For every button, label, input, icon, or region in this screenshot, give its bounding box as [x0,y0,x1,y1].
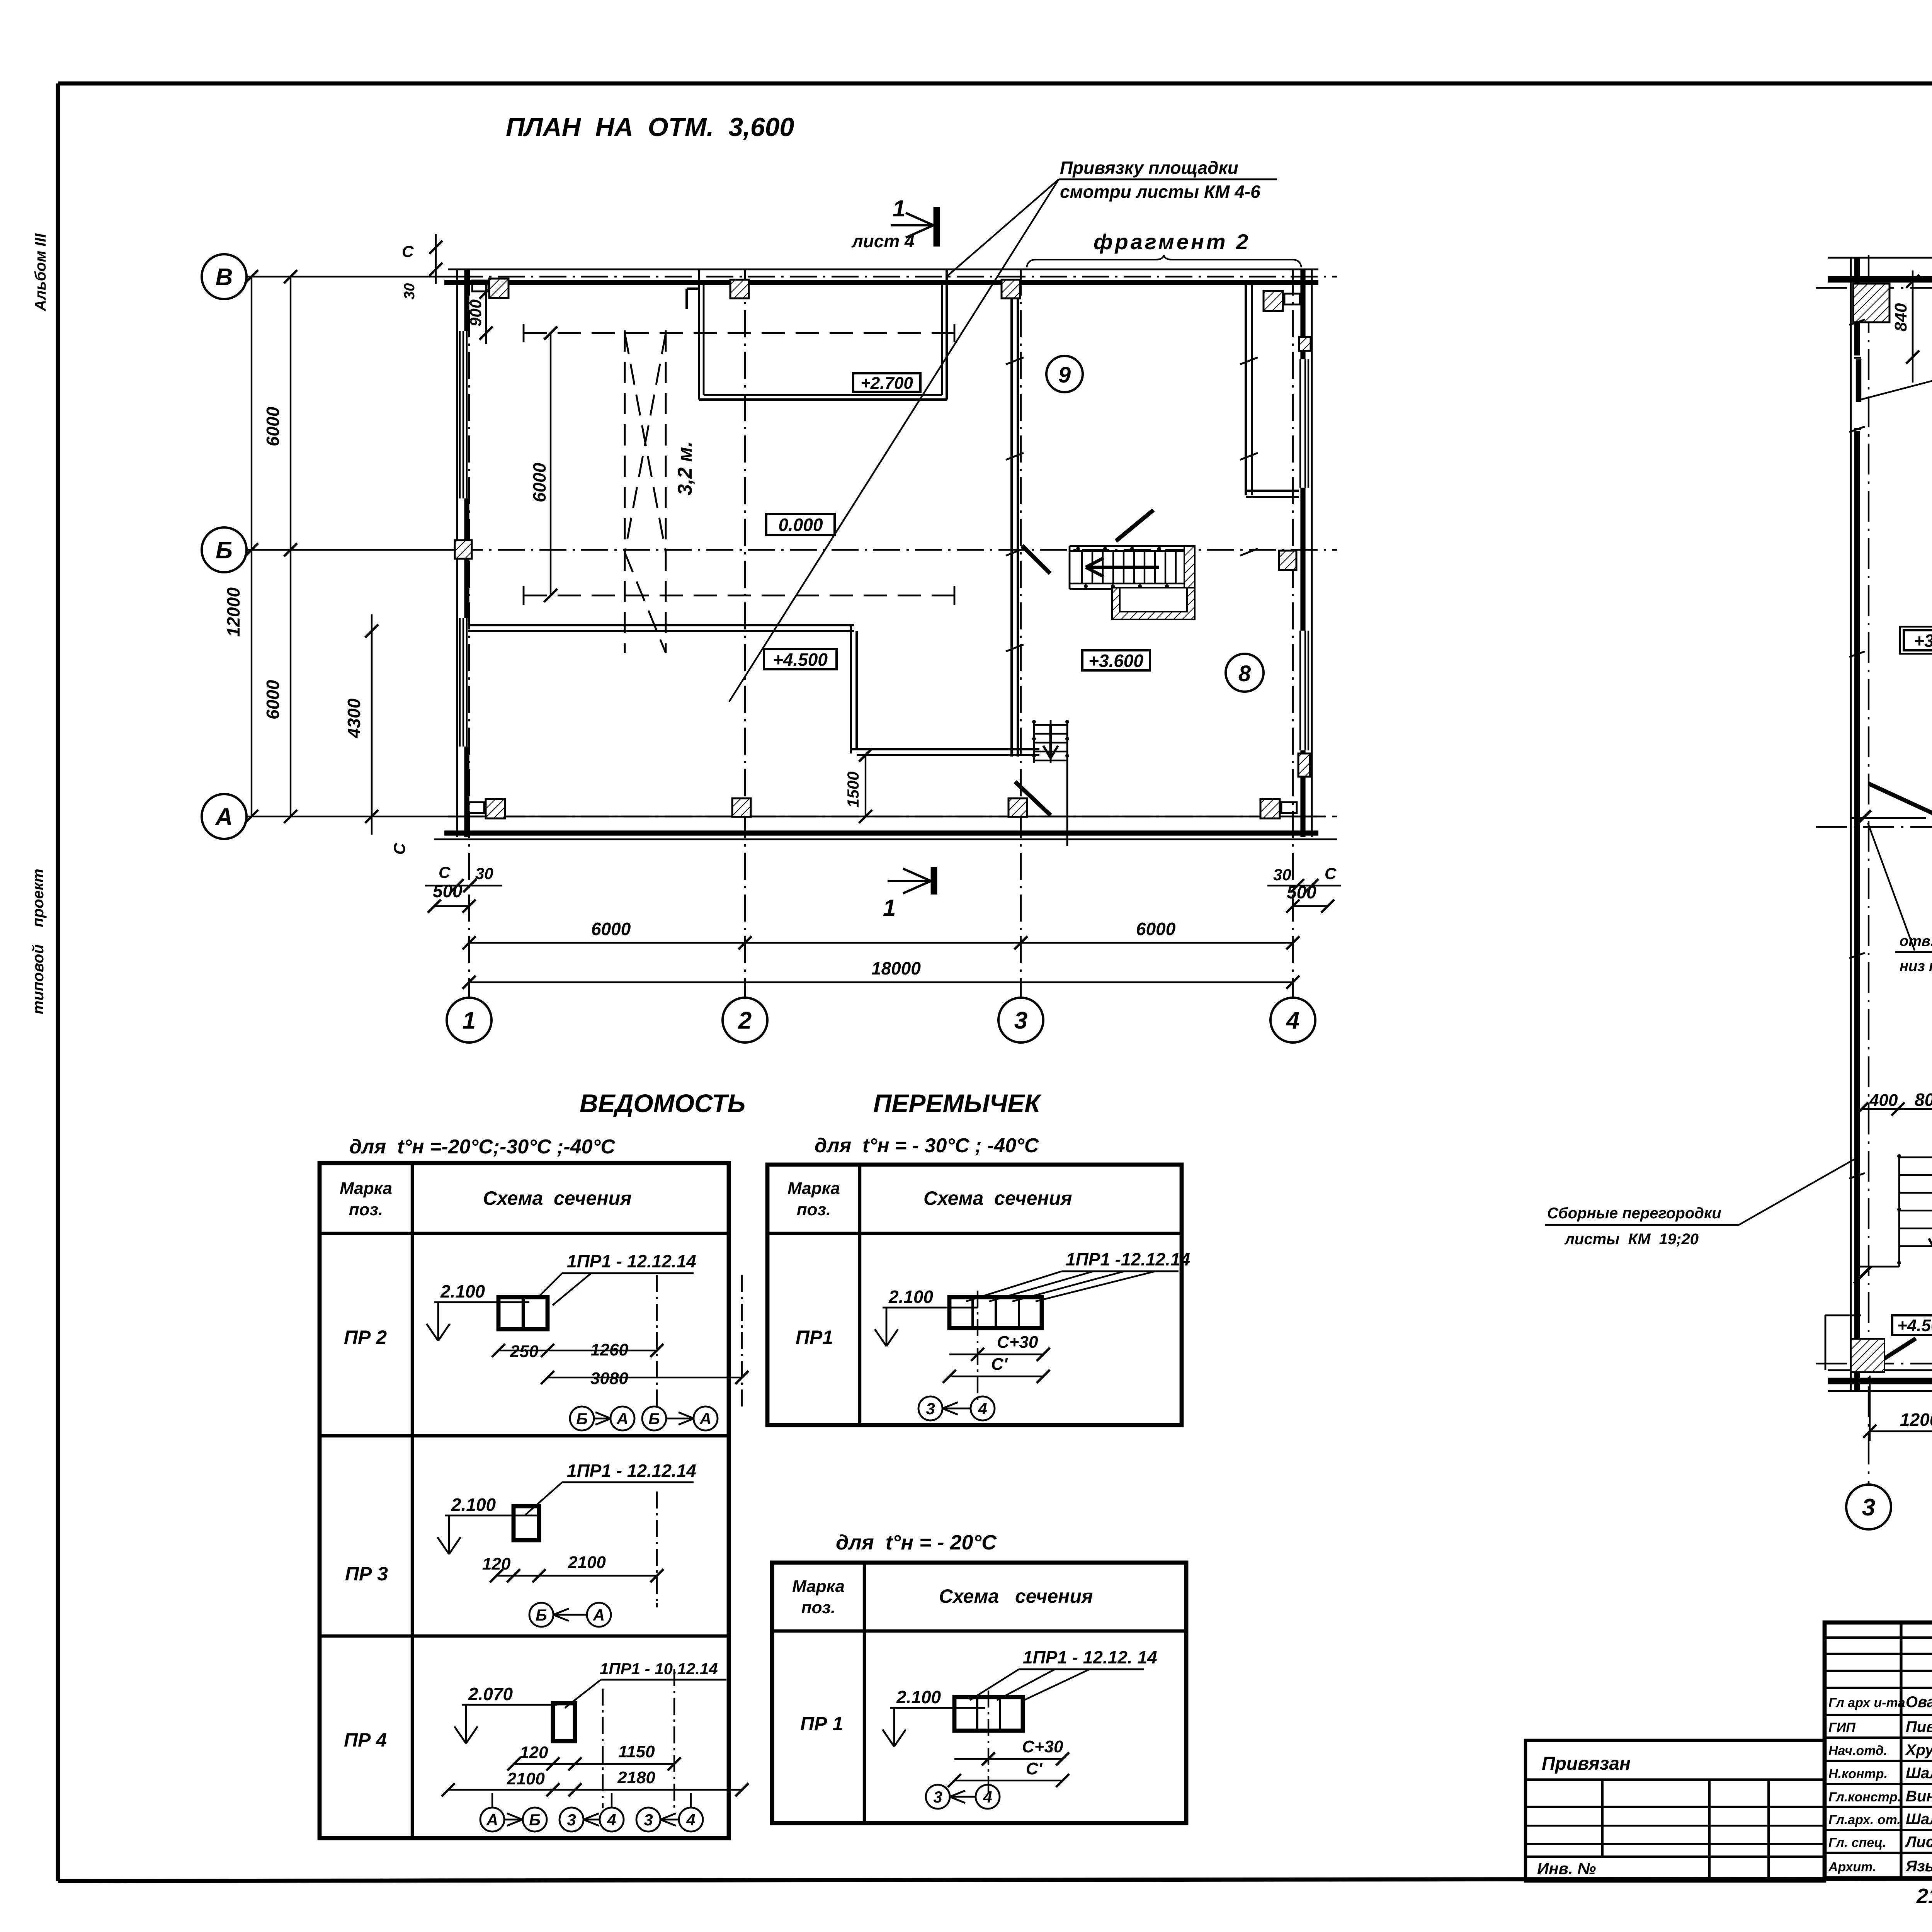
svg-text:6000: 6000 [1136,919,1176,939]
svg-text:250: 250 [510,1342,539,1361]
PR3 section sketch [514,1506,539,1540]
svg-text:смотри листы КМ 4-6: смотри листы КМ 4-6 [1060,182,1260,202]
svg-text:поз.: поз. [801,1598,835,1617]
svg-text:2.100: 2.100 [440,1281,485,1301]
svg-text:Архит.: Архит. [1828,1860,1876,1874]
svg-text:840: 840 [1891,303,1910,332]
plan column axis 2 [744,269,746,998]
svg-text:типовой проект: типовой проект [30,869,47,1014]
svg-text:С': С' [1026,1759,1043,1778]
svg-text:отв. 300×300 ОВ: отв. 300×300 ОВ [1900,933,1932,949]
svg-text:21177-03: 21177-03 [1916,1884,1932,1908]
svg-text:Гл арх и-та: Гл арх и-та [1828,1696,1905,1710]
interior room wall top (+4.500 room) [468,624,854,626]
svg-text:А: А [593,1606,605,1624]
section flag 1 bottom [931,867,937,895]
svg-text:1ПР1 - 10.12.14: 1ПР1 - 10.12.14 [600,1660,718,1678]
svg-text:ПР 4: ПР 4 [344,1729,387,1751]
svg-text:Привязан: Привязан [1542,1753,1631,1774]
svg-text:120: 120 [482,1554,511,1573]
svg-text:900: 900 [466,299,485,327]
svg-text:2100: 2100 [507,1769,545,1788]
svg-text:ПЛАН НА ОТМ. 3,600: ПЛАН НА ОТМ. 3,600 [506,112,794,142]
svg-text:А: А [486,1811,498,1829]
svg-text:+3.600: +3.600 [1088,651,1143,671]
svg-text:800: 800 [1915,1090,1932,1110]
fragment left wall door opening [1856,359,1861,402]
svg-text:2.100: 2.100 [888,1287,934,1307]
crane runway beam (dashed) lower [524,595,954,597]
pilaster attach bottom axis1 [469,802,484,813]
svg-text:2.070: 2.070 [468,1684,513,1704]
ladder LG-2 [1898,1155,1900,1267]
svg-text:1ПР1 - 12.12.14: 1ПР1 - 12.12.14 [567,1461,696,1481]
level box +3.600 [1082,650,1150,670]
svg-text:3: 3 [644,1811,653,1829]
svg-text:6000: 6000 [529,463,549,502]
pilaster top axis2 [730,280,749,298]
svg-text:6000: 6000 [591,919,631,939]
PR3 axis refs [529,1603,553,1627]
svg-text:4: 4 [978,1400,987,1418]
svg-text:Б: Б [536,1606,547,1624]
plan column axis 3 [1020,269,1022,998]
svg-text:С+30: С+30 [1022,1737,1063,1756]
left dim chain 12000 [251,277,252,816]
lintel table 1 box [320,1163,729,1838]
mezzanine +2.700 outline [698,269,700,400]
svg-text:30: 30 [475,864,493,883]
plan main stair near axis B [1070,545,1195,547]
svg-text:4: 4 [983,1788,992,1806]
svg-text:Пивторак: Пивторак [1906,1718,1932,1735]
plan door swing near stair top [1116,510,1153,541]
left dim chain 6000/6000 [290,277,291,816]
fragment axis 3 vertical [1868,255,1869,1486]
svg-text:Схема сечения: Схема сечения [939,1585,1093,1607]
bottom left dim 500 [434,905,469,907]
svg-text:А: А [616,1410,628,1428]
plan top wall [448,269,1318,270]
svg-text:поз.: поз. [797,1200,831,1219]
svg-text:Ованесян: Ованесян [1906,1694,1932,1711]
pilaster right wall upper [1299,337,1311,351]
svg-text:1260: 1260 [590,1340,628,1359]
crane runway beam (dashed) upper [524,332,954,334]
plan axis circle A [202,794,247,839]
svg-text:3,2 м.: 3,2 м. [674,441,696,495]
svg-text:6000: 6000 [263,680,283,719]
svg-text:18000: 18000 [871,958,921,978]
svg-text:ВЕДОМОСТЬ: ВЕДОМОСТЬ [580,1089,745,1117]
svg-text:30: 30 [1273,866,1291,884]
door swing at axis B left wall [1869,784,1932,818]
svg-text:30: 30 [401,283,418,299]
interior room wall bottom [851,748,1039,750]
svg-text:листы КМ 19;20: листы КМ 19;20 [1564,1231,1699,1248]
plan left wall [456,269,458,837]
svg-text:фрагмент 2: фрагмент 2 [1094,230,1250,254]
dim 4300 [371,631,372,816]
section flag 1 top [934,207,940,247]
small stair to +4.500 [1033,720,1035,763]
svg-text:С': С' [991,1355,1008,1374]
pilaster mid axis B left [455,540,472,559]
svg-text:4: 4 [686,1811,695,1829]
svg-text:Гл.констр.: Гл.констр. [1828,1790,1901,1804]
svg-text:низ на отм. 6.650: низ на отм. 6.650 [1900,958,1932,975]
svg-text:Схема сечения: Схема сечения [923,1187,1072,1209]
room number 8 [1226,654,1264,692]
svg-text:3: 3 [1014,1007,1027,1034]
dim 1500 room [865,755,866,816]
svg-text:9: 9 [1058,362,1071,388]
svg-text:С+30: С+30 [997,1333,1038,1352]
svg-text:Сборные перегородки: Сборные перегородки [1547,1205,1721,1222]
svg-text:0.000: 0.000 [778,515,823,535]
pilaster bottom axis1 [486,799,505,818]
svg-text:лист 4: лист 4 [851,231,915,251]
svg-text:А: А [699,1410,711,1428]
plan axis circle B-mid [202,527,247,572]
svg-text:Лисичкин: Лисичкин [1905,1833,1932,1850]
lintel table 2 box [767,1165,1182,1425]
svg-text:для t°н =-20°С;-30°С ;-40°С: для t°н =-20°С;-30°С ;-40°С [349,1136,616,1158]
svg-text:Схема сечения: Схема сечения [483,1187,632,1209]
svg-text:Марка: Марка [792,1577,845,1596]
svg-text:2.100: 2.100 [451,1495,496,1515]
fragment axis circle 3 [1846,1485,1891,1529]
svg-text:2: 2 [738,1007,752,1034]
pilaster attach top axis1 [472,281,488,291]
svg-text:+3.600: +3.600 [1914,631,1932,651]
svg-text:Нач.отд.: Нач.отд. [1828,1743,1887,1758]
crane outline dashed X [624,330,626,653]
bottom right dims 30,C [1298,885,1312,886]
svg-text:Шаломеев: Шаломеев [1906,1811,1932,1828]
plan right wall window 2 [1299,631,1301,750]
lintel table 3 box [772,1563,1186,1823]
pilaster attach top axis4 [1284,294,1300,304]
svg-text:Инв. №: Инв. № [1537,1859,1596,1878]
svg-text:1ПР1 -12.12.14: 1ПР1 -12.12.14 [1066,1249,1190,1269]
svg-text:4300: 4300 [344,698,364,738]
svg-text:1500: 1500 [844,772,862,808]
svg-text:Б: Б [529,1811,541,1829]
table3 axis refs 3<-4 [926,1785,950,1809]
svg-text:+4.500: +4.500 [773,650,828,670]
svg-text:1ПР1 - 12.12.14: 1ПР1 - 12.12.14 [567,1251,696,1271]
plan axis circle B [202,254,247,299]
PR2 section sketch [498,1297,548,1329]
bottom dim line 18000 [469,981,1293,983]
stair side wall hatched [1184,546,1195,603]
svg-text:ПР 1: ПР 1 [800,1713,843,1735]
svg-text:Винклер: Винклер [1906,1788,1932,1805]
svg-text:3: 3 [926,1400,935,1418]
pilaster top axis1 [489,279,509,298]
svg-text:Гл.арх. от.: Гл.арх. от. [1828,1813,1901,1827]
svg-text:4: 4 [1286,1007,1299,1034]
pilaster right wall lower [1298,753,1310,777]
svg-text:3: 3 [567,1811,576,1829]
table2 axis refs 3<-4 [918,1396,942,1420]
pilaster top axis4 [1264,291,1283,311]
pilaster bottom axis2 [732,798,751,817]
svg-text:ПР1: ПР1 [796,1327,833,1348]
svg-text:Альбом III: Альбом III [32,233,49,311]
plan door swing bottom left [1015,782,1051,815]
PR4 axis refs [480,1808,504,1832]
svg-text:1150: 1150 [618,1742,655,1761]
svg-text:ПР 3: ПР 3 [345,1563,388,1585]
level box +4.500 [764,649,837,669]
svg-text:С: С [390,843,408,855]
fragment left wall joint ticks [1849,320,1865,325]
svg-text:3080: 3080 [590,1369,628,1388]
plan bottom wall [448,816,1325,818]
svg-text:С: С [439,863,451,881]
PR2 axis refs [570,1406,594,1430]
svg-text:ГИП: ГИП [1828,1720,1856,1735]
fragment axis line A [1816,1363,1932,1364]
plan door swing below axis B [1022,546,1050,573]
interior partition near right wall [1245,284,1247,495]
bottom right dim 500 [1293,905,1328,907]
svg-text:Б: Б [576,1410,588,1428]
level box 0.000 [766,514,835,535]
bottom dim line 6000+6000 [469,942,1293,944]
+4.500 area partition [1825,1315,1827,1370]
PR1-20 section sketch (3 cells) [954,1697,1023,1731]
door swing bottom left fragment [1867,1338,1916,1370]
svg-text:А: А [215,804,233,830]
svg-text:С: С [402,242,414,260]
PR1 section sketch (4 cells) [949,1297,1042,1328]
svg-text:1: 1 [463,1007,476,1034]
pilaster bottom axis3 [1009,798,1027,817]
plan left wall window 2 [459,618,461,747]
fragment left wall [1850,258,1852,1391]
svg-text:8: 8 [1238,661,1251,686]
svg-text:12000: 12000 [223,587,243,637]
svg-text:4: 4 [607,1811,616,1829]
room number 9 [1046,356,1083,392]
pilaster mid axis B right [1279,551,1296,570]
pilaster attach bottom axis4 [1281,802,1297,813]
level box +3.600 fragment [1904,630,1932,650]
plan column axis 1 [468,269,470,998]
PR4 section sketch [553,1703,575,1741]
dim 840 left [1912,281,1913,357]
dim 400/800 [1862,1108,1932,1110]
svg-text:1ПР1 - 12.12. 14: 1ПР1 - 12.12. 14 [1023,1647,1157,1667]
plan right wall [1311,269,1313,837]
svg-text:Хрупало: Хрупало [1905,1742,1932,1759]
dim 1200 below [1870,1430,1932,1432]
svg-text:6000: 6000 [263,406,283,446]
stair opening below [1112,588,1195,619]
interior room wall right [850,625,852,753]
svg-text:3: 3 [933,1788,942,1806]
svg-text:Марка: Марка [787,1179,840,1198]
plan column circle 4 [1270,998,1315,1043]
fragment axis line B [1816,826,1932,828]
level box +2.700 [853,373,920,392]
level box +4.500 fragment [1892,1315,1932,1335]
plan column circle 3 [998,998,1043,1043]
fragment top wall [1828,257,1932,259]
svg-text:Б: Б [216,537,233,564]
fragment bottom wall [1828,1369,1932,1371]
plan axis line B [247,276,456,277]
pilaster top axis3 [1002,280,1020,298]
svg-text:Н.контр.: Н.контр. [1828,1767,1888,1781]
svg-text:ПР 2: ПР 2 [344,1327,387,1348]
dim 900 vertical [485,292,487,333]
svg-text:2100: 2100 [568,1553,606,1572]
plan column axis 4 [1292,269,1294,998]
svg-text:+4.500: +4.500 [1897,1316,1932,1335]
title block signature table [1825,1622,1932,1878]
svg-text:1: 1 [883,895,896,921]
stair arrow [1086,566,1159,569]
fragment pilaster bottom-left [1851,1339,1884,1372]
svg-text:3: 3 [1862,1494,1875,1521]
svg-text:120: 120 [520,1743,548,1762]
fragment pilaster top-left [1853,284,1889,322]
svg-text:С: С [1325,864,1337,883]
svg-text:Б: Б [648,1410,660,1428]
plan axis line B(mid) [247,549,456,551]
svg-text:+2.700: +2.700 [861,374,913,393]
svg-text:поз.: поз. [349,1200,383,1219]
plan column circle 1 [447,998,492,1043]
dim 6000 interior vertical [550,333,551,595]
svg-text:Гл. спец.: Гл. спец. [1828,1835,1886,1850]
svg-text:для t°н = - 20°С: для t°н = - 20°С [836,1531,997,1554]
svg-text:Привязку площадки: Привязку площадки [1060,158,1238,178]
svg-text:В: В [216,264,233,291]
svg-text:1: 1 [893,196,905,221]
svg-text:2180: 2180 [617,1768,655,1787]
svg-text:Марка: Марка [340,1179,392,1198]
interior wall on axis 3 [1010,284,1013,757]
svg-text:Шаломеев: Шаломеев [1906,1765,1932,1782]
plan right wall window 1 [1299,359,1301,488]
svg-text:для t°н = - 30°С ; -40°С: для t°н = - 30°С ; -40°С [815,1134,1039,1157]
sheet frame border [56,83,60,1881]
plan column circle 2 [723,998,767,1043]
fragment axis line V [1816,287,1932,289]
svg-text:400: 400 [1869,1091,1898,1110]
svg-text:Язычьян: Язычьян [1905,1858,1932,1875]
pilaster bottom axis4 [1260,799,1280,818]
plan axis line A [247,816,456,817]
plan left wall window 1 [459,331,461,498]
leader lines [947,179,1059,276]
svg-text:1200: 1200 [1900,1410,1932,1430]
privyazan block [1526,1740,1825,1881]
svg-text:2.100: 2.100 [896,1687,941,1707]
svg-text:ПЕРЕМЫЧЕК: ПЕРЕМЫЧЕК [873,1089,1042,1117]
bottom left dims C,30 [457,885,470,886]
